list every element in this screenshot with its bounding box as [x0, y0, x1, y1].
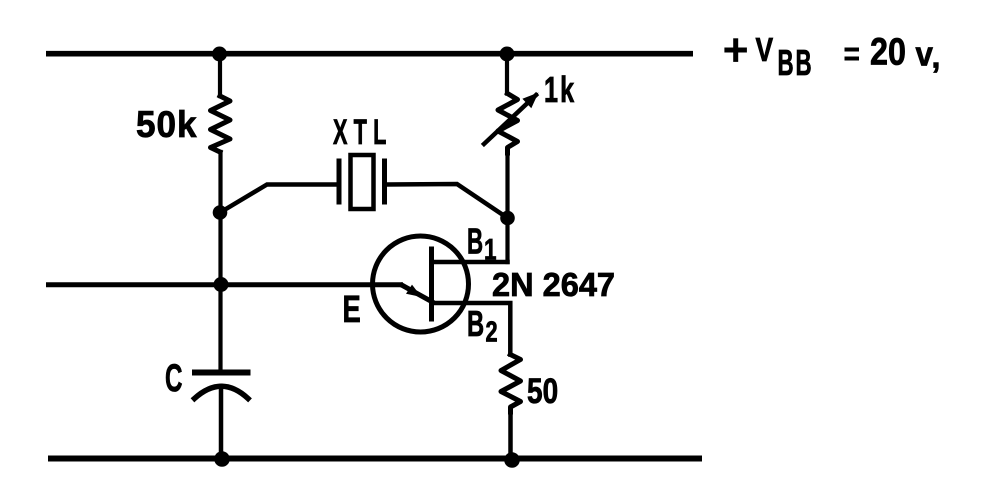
svg-text:1k: 1k	[544, 69, 576, 110]
svg-text:XTL: XTL	[333, 114, 393, 152]
svg-text:E: E	[343, 289, 361, 331]
svg-text:BB: BB	[778, 44, 814, 84]
svg-text:50: 50	[527, 371, 558, 411]
svg-text:2N 2647: 2N 2647	[492, 266, 615, 303]
svg-text:1: 1	[484, 232, 497, 266]
svg-text:B: B	[467, 222, 483, 262]
svg-text:20: 20	[870, 31, 906, 73]
svg-text:B: B	[467, 304, 484, 344]
svg-text:V: V	[756, 32, 774, 68]
svg-text:C: C	[165, 356, 182, 399]
svg-text:2: 2	[486, 317, 498, 349]
svg-text:,: ,	[932, 39, 941, 75]
svg-text:50k: 50k	[136, 103, 197, 145]
